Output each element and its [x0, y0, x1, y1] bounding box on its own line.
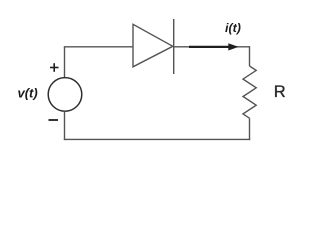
- current arrow shaft i(t): [189, 46, 230, 48]
- svg-text:i(t): i(t): [225, 21, 241, 35]
- + polarity mark: [50, 63, 59, 72]
- wire: top rail left segment (corner to diode anode): [64, 46, 133, 48]
- wire: left branch bottom (source bottom to bottom rail): [64, 111, 66, 140]
- diode D1 cathode bar: [173, 19, 175, 74]
- svg-text:R: R: [274, 83, 286, 101]
- resistor R zigzag: [243, 66, 256, 118]
- voltage source V1 circle: [48, 78, 82, 112]
- wire: left branch top (source top to top-left corner): [64, 47, 66, 78]
- current arrow head: [228, 43, 238, 50]
- diode D1 anode triangle: [133, 24, 173, 67]
- wire: right branch top stub: [249, 46, 251, 66]
- wire: bottom rail: [64, 138, 250, 140]
- wire: right branch bottom stub: [249, 118, 251, 140]
- - polarity mark: [49, 119, 59, 121]
- svg-text:v(t): v(t): [18, 86, 38, 101]
- wire: top rail right segment (diode cathode to top-right corner): [174, 46, 250, 48]
